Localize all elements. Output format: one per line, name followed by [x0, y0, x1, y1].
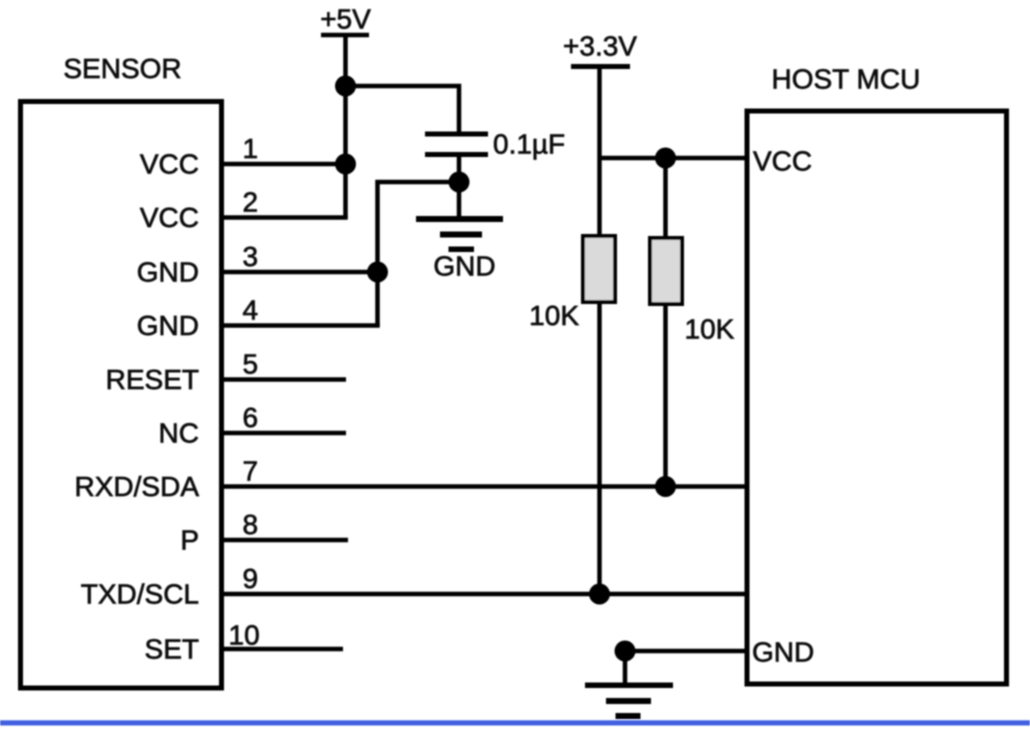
svg-text:VCC: VCC: [753, 146, 812, 177]
svg-text:GND: GND: [137, 257, 199, 288]
svg-text:2: 2: [243, 187, 259, 218]
svg-text:0.1µF: 0.1µF: [493, 129, 565, 160]
svg-text:10: 10: [229, 620, 260, 651]
svg-text:8: 8: [243, 509, 259, 540]
svg-text:TXD/SCL: TXD/SCL: [81, 579, 199, 610]
svg-text:3: 3: [243, 241, 259, 272]
svg-text:RESET: RESET: [106, 364, 199, 395]
svg-text:6: 6: [243, 402, 259, 433]
svg-text:VCC: VCC: [140, 149, 199, 180]
svg-text:+3.3V: +3.3V: [563, 31, 637, 62]
svg-text:VCC: VCC: [140, 202, 199, 233]
svg-text:4: 4: [243, 295, 259, 326]
svg-text:5: 5: [243, 349, 259, 380]
svg-text:+5V: +5V: [320, 4, 371, 35]
svg-text:SENSOR: SENSOR: [63, 53, 181, 84]
svg-text:HOST MCU: HOST MCU: [772, 64, 921, 95]
svg-text:P: P: [180, 525, 199, 556]
svg-text:RXD/SDA: RXD/SDA: [75, 471, 200, 502]
svg-text:1: 1: [243, 133, 259, 164]
svg-text:SET: SET: [145, 634, 199, 665]
svg-text:NC: NC: [159, 418, 199, 449]
svg-text:10K: 10K: [685, 314, 735, 345]
svg-text:GND: GND: [137, 310, 199, 341]
svg-text:9: 9: [243, 563, 259, 594]
svg-text:GND: GND: [433, 251, 495, 282]
svg-text:10K: 10K: [529, 300, 579, 331]
svg-text:GND: GND: [752, 637, 814, 668]
svg-text:7: 7: [243, 456, 259, 487]
